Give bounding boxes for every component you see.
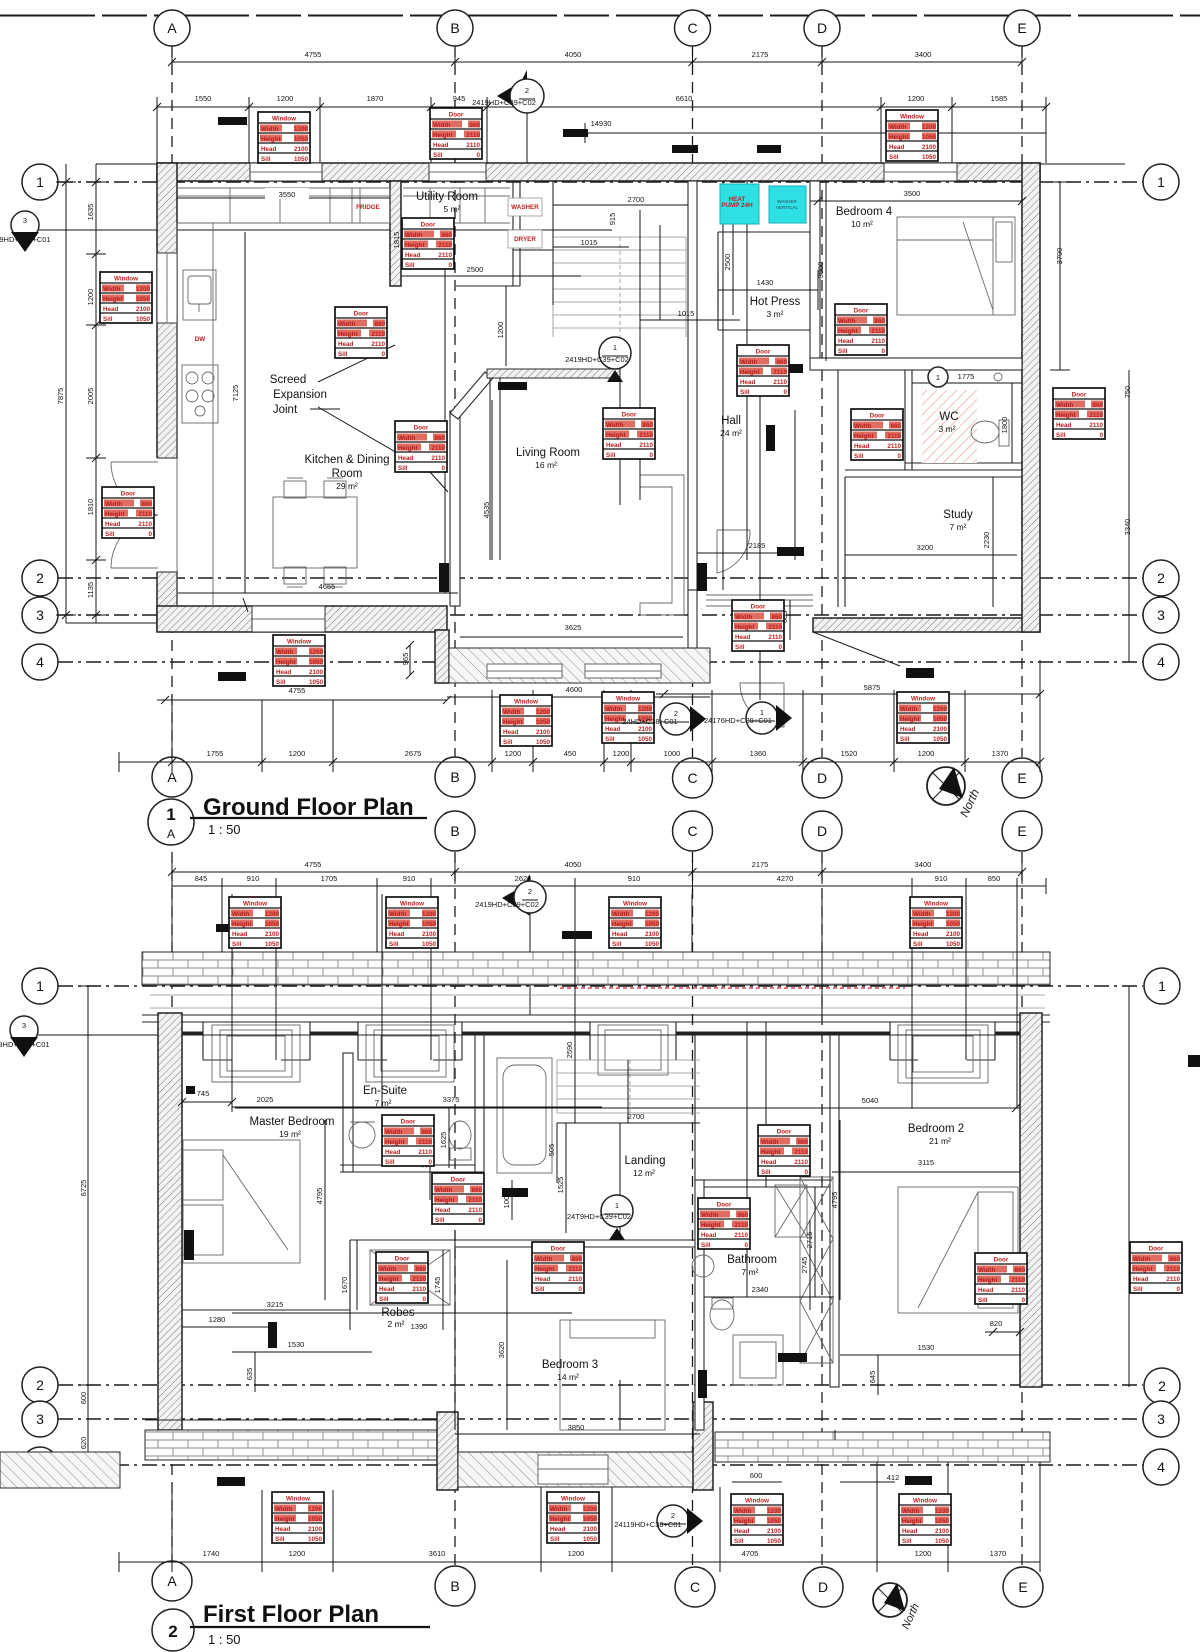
dim 2590 v [574,1015,576,1115]
grid circle 1 ff-left [22,968,58,1004]
svg-text:600: 600 [79,1392,88,1405]
svg-text:1200: 1200 [918,749,935,758]
svg-text:1: 1 [1158,978,1166,994]
svg-text:WASHER: WASHER [511,204,539,211]
svg-text:24176HD+C39+C01: 24176HD+C39+C01 [704,716,772,725]
svg-text:1755: 1755 [207,749,224,758]
svg-text:1520: 1520 [841,749,858,758]
horizontal grid line 1 ground [58,181,1143,183]
kitchen left counter [177,223,213,606]
svg-text:1740: 1740 [203,1549,220,1558]
dim 2500 utility [401,275,581,277]
utility cabinets [403,188,510,223]
svg-text:3115: 3115 [918,1158,934,1167]
svg-text:1530: 1530 [288,1340,305,1349]
ff bottom wall left line [145,1420,440,1430]
dim 3625 living [460,636,683,638]
svg-text:Hot Press: Hot Press [750,296,801,308]
svg-text:A: A [167,20,177,36]
svg-text:3375: 3375 [443,1095,460,1104]
hall door arc [717,530,750,573]
svg-text:1135: 1135 [86,582,95,598]
svg-text:4755: 4755 [305,860,322,869]
gf top wall window E [884,163,957,181]
ff bedroom3 south wall chevron [458,1452,713,1487]
dim 1530 left [232,1351,372,1353]
bedroom3 bed [560,1320,665,1430]
svg-text:1: 1 [613,343,617,352]
gf bedroom4 left wall [810,181,820,361]
horizontal grid line 3 first [58,1418,1143,1420]
bathroom shower [775,1185,807,1237]
svg-text:1200: 1200 [915,1549,932,1558]
svg-text:2185: 2185 [749,541,766,550]
ff bar bedroom3 [698,1370,707,1398]
grid circle E top [1004,10,1040,46]
section marker gf-bottom 2 [660,703,692,735]
dim 820 [985,1328,1024,1336]
svg-text:2230: 2230 [982,532,991,549]
bar top stairs [563,129,588,137]
svg-text:A: A [167,1573,177,1589]
ff bottom hatched band left low [0,1452,120,1488]
svg-text:2: 2 [168,1622,177,1641]
svg-text:VERTICAL: VERTICAL [776,205,798,210]
svg-text:1200: 1200 [86,289,95,306]
grid circle 3 gf-right [1143,597,1179,633]
svg-text:1015: 1015 [678,309,695,318]
tag window bottom mid [273,635,325,686]
dim 1430 hotpress [718,270,818,310]
grid circle B ff-bottom [435,1566,475,1606]
dim 3375 [382,1106,602,1108]
svg-text:3500: 3500 [904,189,921,198]
gf stair section circle [565,336,631,382]
svg-text:1280: 1280 [209,1315,226,1324]
grid circle B top [437,10,473,46]
stairs [553,237,686,337]
svg-text:4050: 4050 [565,860,582,869]
svg-text:Kitchen & Dining: Kitchen & Dining [304,454,389,466]
bathroom sink [692,1255,714,1277]
svg-text:2340: 2340 [752,1285,769,1294]
ff dormer bay 2 [358,1022,462,1082]
ff tag door bathroom left [698,1198,750,1249]
ensuite sink [349,1122,375,1148]
svg-text:1: 1 [166,805,175,824]
gf hall east wall [837,370,839,470]
grid circle 3 ff-left [22,1401,58,1437]
svg-text:Living Room: Living Room [516,447,580,459]
svg-text:915: 915 [608,213,617,226]
ff bar top mid [562,931,592,939]
gf right exterior wall [1022,163,1040,632]
svg-text:3340: 3340 [1123,519,1132,536]
svg-text:820: 820 [990,1319,1003,1328]
svg-text:1200: 1200 [908,94,925,103]
svg-text:1370: 1370 [990,1549,1007,1558]
svg-text:3: 3 [36,1411,44,1427]
svg-text:1: 1 [36,174,44,190]
svg-text:850: 850 [988,874,1001,883]
dim 2715 bathroom v [814,1187,816,1297]
dim 965 porch v [406,641,414,679]
svg-text:Bedroom 3: Bedroom 3 [542,1359,598,1371]
svg-text:24 m²: 24 m² [720,428,742,438]
svg-text:4755: 4755 [305,50,322,59]
grid circle D ff-bottom [803,1567,843,1607]
ff eaves brick band [142,952,1050,985]
tag door wc right [1053,388,1105,439]
svg-text:3790: 3790 [1055,248,1064,265]
svg-text:412: 412 [887,1473,900,1482]
svg-text:En-Suite: En-Suite [363,1085,407,1097]
dim 645 v right [877,1355,879,1395]
dim 600 bottom [732,1481,782,1483]
svg-text:910: 910 [403,874,416,883]
ff bedroom3 south window [538,1455,608,1484]
dim 2230 study v [992,477,994,607]
ff bar bottom 412 [905,1476,932,1485]
ff left exterior wall [158,1013,182,1430]
bar kitchen wall v [439,563,449,592]
dim 412 bottom [840,1481,895,1483]
ff dormer bay 3 [590,1022,676,1075]
ff wall master south / robes [182,1240,455,1310]
dim 3115 [832,1171,1020,1173]
svg-text:1745: 1745 [433,1277,442,1294]
grid circle 3 ff-right [1143,1401,1179,1437]
section marker ff top (2) [475,874,546,1015]
gf dim 14930 [585,123,1046,143]
svg-text:910: 910 [628,874,641,883]
svg-text:Bedroom 2: Bedroom 2 [908,1123,964,1135]
chair 1 [284,481,306,498]
gf living/hall wall [688,181,697,590]
grid circle C top [675,10,711,46]
dim 605 hall v [789,600,791,640]
svg-text:E: E [1017,823,1026,839]
svg-text:4: 4 [36,654,44,670]
dim 2700 stairs [553,195,688,305]
svg-text:3: 3 [36,607,44,623]
svg-text:4: 4 [1157,654,1165,670]
grid circle 1 ff-right [1144,968,1180,1004]
bathroom toilet [710,1300,734,1330]
svg-text:7125: 7125 [231,385,240,402]
grid circle 4 gf-right [1143,644,1179,680]
grid circle C ff-bottom [675,1567,715,1607]
dim 4655 kitchen [178,593,458,612]
dim 2745 v [809,1220,811,1310]
svg-text:24T9HD+C39+C02: 24T9HD+C39+C02 [567,1212,631,1221]
svg-text:3: 3 [1157,1411,1165,1427]
bar utility door [766,425,775,451]
ff bar ensuite [502,1188,528,1197]
grid circle 2 gf-right [1143,560,1179,596]
grid circle B ff-top [435,811,475,851]
gf porch window 1 [487,664,562,678]
tag door hotpress [737,345,789,396]
gf left wall door opening [111,458,178,572]
tag door living [603,408,655,459]
grid circle D top [804,10,840,46]
svg-text:1815: 1815 [392,232,401,249]
dim 4535 living v [491,400,493,560]
gf left exterior wall [157,163,177,630]
tag door bedroom4 [835,304,887,355]
ff bar wall master [268,1322,277,1348]
fridge box [352,188,390,223]
dim 2715 v [429,1120,431,1200]
svg-text:1: 1 [615,1201,619,1210]
gf bottom dim row [119,660,1040,772]
dim 1775 wc [912,382,1022,384]
ff top dim row 2 [172,878,1046,894]
gf top dim row 1 [172,50,1022,74]
dim 1015 stairs [513,249,553,251]
svg-text:1775: 1775 [958,372,975,381]
svg-text:4795: 4795 [315,1188,324,1205]
grid circle D ff-top [802,811,842,851]
kitchen extension vlines [445,230,490,593]
svg-text:2: 2 [36,1377,44,1393]
svg-text:D: D [817,770,827,786]
ff dormer bay 1 [203,1022,310,1082]
svg-text:1: 1 [1157,174,1165,190]
svg-text:2500: 2500 [723,254,732,271]
grid circle 4 gf-left [22,644,58,680]
svg-text:1360: 1360 [750,749,767,758]
svg-text:PUMP 24H: PUMP 24H [721,202,753,209]
svg-text:9HD+C38+C01: 9HD+C38+C01 [0,1040,50,1049]
tag door utility [402,218,454,269]
ensuite toilet [449,1121,471,1149]
svg-text:450: 450 [564,749,577,758]
svg-text:First Floor Plan: First Floor Plan [203,1601,379,1628]
horizontal grid line 2 first [58,1384,1143,1386]
ff bottom brick band left [145,1430,437,1460]
svg-text:Expansion: Expansion [273,389,327,401]
svg-text:1870: 1870 [367,94,384,103]
ff dormer bay 4 [890,1022,995,1083]
ff bar left wall [184,1230,194,1260]
dim 1625 v [448,1108,450,1168]
svg-text:4755: 4755 [289,686,306,695]
washer label [508,198,542,216]
ff tag window bottom3 [731,1494,783,1545]
svg-text:Joint: Joint [273,404,298,416]
gf living nw chamfer wall [450,372,493,419]
chair 2 [324,481,346,498]
svg-text:635: 635 [245,1368,254,1381]
svg-text:10 m²: 10 m² [851,219,873,229]
svg-text:3850: 3850 [568,1423,585,1432]
svg-text:2675: 2675 [405,749,422,758]
ff bathroom west wall low [693,1402,713,1490]
master bed [183,1140,300,1263]
dim 4795 master v [324,1120,326,1300]
svg-text:1370: 1370 [992,749,1009,758]
svg-text:910: 910 [247,874,260,883]
front door arc [740,683,784,727]
grid circle B gf-bottom [435,757,475,797]
svg-text:B: B [450,20,459,36]
dim 5040 [235,1104,1020,1112]
section marker gf-bottom 1 [746,702,778,734]
svg-text:1200: 1200 [505,749,522,758]
dim 1280 [182,1326,272,1328]
gf bedroom4 south wall [810,358,1022,370]
landing stairs [557,1060,700,1113]
ff bedroom3 west wall [437,1412,458,1490]
dim 3550 kitchen [177,197,390,199]
svg-text:WC: WC [939,411,958,423]
dim 1800 wc v [1011,383,1013,463]
svg-text:1430: 1430 [757,278,774,287]
horizontal grid line 4 first [58,1464,1143,1466]
svg-text:24HD+C38+C01: 24HD+C38+C01 [622,717,677,726]
svg-text:E: E [1018,1579,1027,1595]
svg-text:B: B [450,823,459,839]
gf porch south wall [449,648,710,683]
svg-text:845: 845 [195,874,208,883]
tag window top A [258,112,310,163]
grid circle E gf-bottom [1002,758,1042,798]
dim 1200 landing [505,286,507,366]
svg-text:2: 2 [671,1511,675,1520]
gf study north wall [838,470,1022,607]
svg-text:12 m²: 12 m² [633,1168,655,1178]
svg-text:Room: Room [332,468,363,480]
svg-text:2700: 2700 [628,1112,645,1121]
dim 3500 bedroom4 [810,197,1026,205]
svg-text:A: A [167,827,175,841]
svg-text:DW: DW [195,336,206,343]
dim 2500 hotpress v [732,200,734,315]
svg-text:1015: 1015 [581,238,598,247]
svg-text:14930: 14930 [591,119,612,128]
svg-text:C: C [687,770,697,786]
ff ensuite/landing wall [475,1035,484,1172]
ff tag window bottom1 [272,1492,324,1543]
svg-text:505: 505 [547,1144,556,1157]
section marker ff-bottom 2 [657,1505,689,1537]
ff bottom extension lines [172,1462,1040,1572]
ff tag window top1 [229,897,281,948]
svg-text:4655: 4655 [319,582,336,591]
gf hall south glazing [706,595,813,606]
ff long vlines [172,894,1017,1240]
svg-text:1: 1 [936,373,940,382]
north arrow gf [927,767,982,819]
svg-text:745: 745 [197,1089,210,1098]
dim 1005 v [511,1180,513,1220]
dim 1015 hall [640,319,740,321]
ff tag door bedroom2 a [975,1253,1027,1304]
svg-text:1550: 1550 [195,94,212,103]
ff ensuite south wall [340,1165,480,1172]
dim 1670 v [349,1250,351,1330]
ff tag door bedroom3 [532,1242,584,1293]
svg-text:750: 750 [1123,386,1132,399]
ff left dim column [78,986,98,1385]
chair 3 [284,567,306,584]
grid circle E ff-top [1002,811,1042,851]
grid circle 2 ff-right [1144,1368,1180,1404]
ff tag door robes [376,1252,428,1303]
svg-text:2: 2 [1158,1378,1166,1394]
grid circle 4 ff-right [1143,1449,1179,1485]
dim 1530 right [840,1354,1020,1356]
grid circle A gf-bottom [152,757,192,797]
tag window top E [886,110,938,161]
grid circle 4 ff-left [22,1447,58,1483]
gf left dim column [56,164,76,623]
svg-text:1390: 1390 [411,1322,428,1331]
gf top exterior wall [157,163,1040,181]
bar study bottom [906,668,934,678]
ff bottom brick band right [715,1432,1050,1462]
ff tag window top2 [386,897,438,948]
study diagonal leader [813,632,900,666]
gf kitchen south window [252,606,325,632]
svg-text:7 m²: 7 m² [375,1098,392,1108]
svg-text:C: C [687,823,697,839]
gf top wall window A [250,163,322,181]
horizontal grid line 3 ground [58,614,1143,616]
ff bar bathroom [778,1353,807,1362]
svg-text:2: 2 [36,570,44,586]
gf left wall window [157,253,177,323]
svg-text:1200: 1200 [568,1549,585,1558]
svg-text:Master Bedroom: Master Bedroom [249,1116,334,1128]
svg-text:3: 3 [22,1021,26,1030]
svg-text:2419HD+C39+C02: 2419HD+C39+C02 [565,355,629,364]
bar hall right [777,547,804,556]
svg-text:7 m²: 7 m² [742,1267,759,1277]
svg-text:FRIDGE: FRIDGE [356,204,380,211]
svg-text:2025: 2025 [257,1095,274,1104]
svg-text:2590: 2590 [565,1042,574,1059]
svg-text:2500: 2500 [467,265,484,274]
svg-text:3400: 3400 [915,50,932,59]
bedroom4 bed [897,217,1015,315]
svg-text:965: 965 [401,653,410,666]
cyan heat pump box [720,184,759,224]
ff bar top A [216,924,245,932]
svg-text:Landing: Landing [625,1155,666,1167]
ff landing east wall [694,1035,696,1180]
horizontal grid line 1 first [58,985,1143,987]
svg-text:D: D [817,823,827,839]
gf top-right corner line [1040,163,1125,165]
ff top wall line [142,1015,1050,1022]
svg-text:C: C [690,1579,700,1595]
ff tag door bathroom top [758,1125,810,1176]
dim 2185 hall [697,552,804,554]
svg-text:2 m²: 2 m² [388,1319,405,1329]
svg-text:600: 600 [750,1471,763,1480]
svg-text:1 : 50: 1 : 50 [208,822,241,837]
svg-text:Screed: Screed [270,374,306,386]
screed joint leaders [318,345,448,492]
svg-text:4705: 4705 [742,1549,759,1558]
dim 745 [178,1092,236,1112]
svg-text:7875: 7875 [56,388,65,405]
horizontal grid line 2 ground [58,577,1143,579]
svg-text:3800: 3800 [816,262,825,279]
